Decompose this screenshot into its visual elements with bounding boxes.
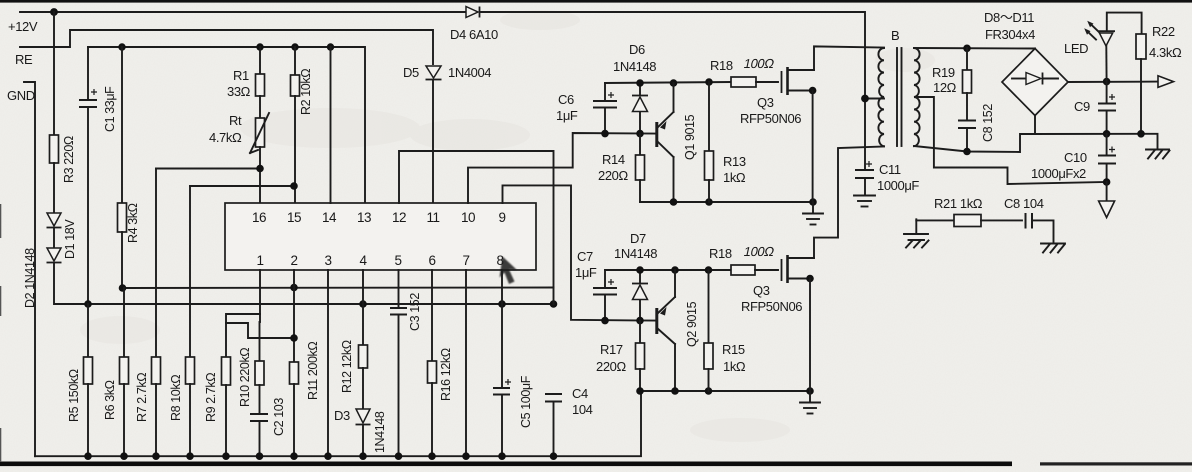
svg-text:C9: C9: [1074, 99, 1090, 114]
wire R4 bottom: [121, 232, 123, 288]
transistor Q1: [657, 83, 697, 202]
wire R6 column: [123, 288, 125, 357]
svg-text:R19: R19: [932, 65, 955, 80]
resistor R1 column: [259, 47, 261, 74]
svg-text:1N4004: 1N4004: [448, 65, 491, 80]
svg-text:12Ω: 12Ω: [933, 80, 957, 95]
svg-text:C1 33μF: C1 33μF: [103, 86, 117, 132]
capacitor C10: [1031, 134, 1116, 186]
svg-text:R10 220kΩ: R10 220kΩ: [238, 348, 252, 407]
resistor R18 lower: [709, 244, 778, 275]
svg-text:2: 2: [290, 253, 297, 268]
wire R5 bottom: [87, 384, 89, 456]
wire bottom rail: [35, 391, 641, 456]
ground under C8 right (hatched): [1041, 244, 1065, 253]
svg-text:4: 4: [359, 253, 367, 268]
svg-text:1μF: 1μF: [575, 265, 597, 280]
svg-text:R4 3kΩ: R4 3kΩ: [126, 203, 140, 243]
svg-text:100Ω: 100Ω: [742, 56, 775, 71]
svg-text:Rt: Rt: [229, 113, 242, 128]
svg-text:C8 152: C8 152: [981, 104, 995, 142]
zener D1: [47, 213, 78, 259]
wire R16 bottom: [431, 383, 433, 456]
wire node line y186 (pin15,R8,R2): [190, 185, 294, 187]
svg-text:6: 6: [428, 253, 435, 268]
svg-text:R21 1kΩ: R21 1kΩ: [934, 196, 983, 211]
wire RE rail: [20, 30, 433, 64]
resistor R14: [598, 134, 645, 202]
ground right (hatched): [1146, 150, 1170, 159]
resistor R17: [596, 321, 645, 391]
wire top node y83: [605, 82, 731, 83]
resistor R1: [256, 74, 265, 96]
LED and bracket: [1064, 13, 1142, 82]
resistor R13: [705, 82, 746, 202]
node dots lower base line: [601, 317, 609, 325]
diode D6: [613, 42, 656, 134]
cursor artifact: [500, 257, 518, 285]
node dots on y304: [84, 300, 92, 308]
svg-text:R6 3kΩ: R6 3kΩ: [103, 380, 117, 420]
svg-text:R22: R22: [1152, 24, 1175, 39]
node Vref dots: [118, 43, 125, 50]
svg-text:5: 5: [394, 253, 401, 268]
svg-text:R7 2.7kΩ: R7 2.7kΩ: [135, 373, 149, 422]
svg-text:11: 11: [426, 210, 439, 225]
wire R9 bottom: [225, 385, 227, 456]
wire R3 to D1: [53, 163, 55, 213]
svg-text:D3: D3: [334, 408, 350, 423]
node dots lower top line: [636, 266, 644, 274]
wire R4 column: [121, 47, 123, 203]
wire R2 to node y186: [294, 96, 296, 203]
capacitor C5: [493, 375, 533, 456]
wire R8 bottom: [189, 384, 191, 456]
diode D4: [450, 7, 498, 43]
node junction +12V column: [50, 8, 58, 16]
diode D2: [23, 248, 62, 308]
svg-text:R2 10kΩ: R2 10kΩ: [299, 69, 313, 115]
svg-text:12: 12: [392, 210, 406, 225]
thermistor Rt: [209, 113, 269, 153]
top scan border: [0, 0, 1192, 3]
IC U1 box: [225, 203, 536, 270]
mosfet Q3 lower: [741, 147, 884, 392]
node dots base line: [601, 130, 609, 138]
svg-text:1μF: 1μF: [556, 108, 578, 123]
wire output plus row: [1068, 81, 1158, 83]
svg-text:100Ω: 100Ω: [742, 244, 775, 259]
svg-text:R9 2.7kΩ: R9 2.7kΩ: [204, 373, 218, 422]
transformer secondary winding: [914, 48, 920, 146]
resistor R8: [186, 357, 195, 384]
diode D3: [334, 408, 387, 453]
wire R3/D1/D2 column top: [53, 12, 55, 135]
wire primary center tap: [865, 98, 884, 100]
svg-text:104: 104: [572, 402, 593, 417]
wire R1 to Rt: [259, 96, 261, 118]
wire R8 column: [189, 186, 191, 357]
wire R7 bottom: [155, 384, 157, 456]
svg-text:D1 18V: D1 18V: [63, 219, 77, 259]
svg-text:C6: C6: [558, 92, 574, 107]
capacitor C7: [575, 249, 617, 321]
wire mid rail y134: [1035, 134, 1158, 149]
svg-text:FR304x4: FR304x4: [985, 27, 1035, 42]
svg-text:4.7kΩ: 4.7kΩ: [209, 130, 242, 145]
svg-text:GND: GND: [7, 88, 35, 103]
capacitor C6: [556, 83, 617, 134]
svg-text:D6: D6: [629, 42, 645, 57]
svg-text:R14: R14: [602, 152, 625, 167]
wire node line y288 to pin2: [122, 287, 554, 290]
svg-text:+12V: +12V: [8, 19, 38, 34]
svg-text:220Ω: 220Ω: [596, 359, 626, 374]
svg-text:R11 200kΩ: R11 200kΩ: [306, 342, 320, 400]
pin labels bottom row: [256, 253, 503, 268]
svg-text:Q1 9015: Q1 9015: [683, 114, 697, 160]
svg-text:1N4148: 1N4148: [614, 246, 657, 261]
transistor Q2: [657, 270, 699, 391]
wire pin4 to R12: [362, 270, 364, 345]
resistor R19: [932, 45, 972, 120]
resistor R15: [704, 270, 746, 391]
svg-text:R17: R17: [600, 342, 623, 357]
svg-text:R16 12kΩ: R16 12kΩ: [439, 348, 453, 401]
capacitor C4: [545, 386, 593, 456]
output arrow right: [1158, 76, 1174, 88]
resistor R22: [1136, 24, 1182, 134]
svg-text:R15: R15: [722, 342, 745, 357]
svg-text:B: B: [891, 28, 899, 43]
resistor R4: [118, 203, 127, 232]
resistor R5: [84, 357, 93, 384]
svg-text:R18: R18: [710, 58, 733, 73]
capacitor C3: [390, 293, 422, 457]
wire D1 to D2: [53, 228, 55, 248]
wire R12 to D3: [362, 368, 364, 409]
wire top node y270: [605, 269, 731, 271]
capacitor C9: [1074, 82, 1116, 134]
svg-text:1000μF: 1000μF: [877, 178, 919, 193]
wire secondary center tap to minus rail: [915, 97, 1107, 184]
capacitor C2: [250, 385, 286, 456]
wire D3 bottom: [362, 425, 364, 456]
svg-text:D8〜D11: D8〜D11: [984, 10, 1034, 25]
wire bottom node y202: [640, 201, 813, 203]
svg-text:Q3: Q3: [753, 283, 770, 298]
wire bottom node y391: [640, 390, 810, 392]
svg-text:14: 14: [322, 210, 337, 225]
svg-text:R12 12kΩ: R12 12kΩ: [340, 340, 354, 393]
diode D5: [403, 65, 491, 80]
node dots top line: [636, 79, 644, 87]
svg-text:R3 220Ω: R3 220Ω: [62, 136, 76, 183]
transformer core: [896, 48, 898, 146]
capacitor C11: [855, 161, 919, 195]
svg-text:C11: C11: [879, 162, 901, 177]
svg-text:C10: C10: [1064, 150, 1087, 165]
svg-text:R5 150kΩ: R5 150kΩ: [67, 369, 81, 422]
svg-text:R18: R18: [709, 246, 732, 261]
resistor R11: [290, 362, 299, 384]
wire R6 bottom: [123, 384, 125, 456]
svg-text:7: 7: [462, 253, 469, 268]
diode D7: [614, 231, 657, 321]
svg-text:16: 16: [252, 210, 266, 225]
svg-text:D5: D5: [403, 65, 419, 80]
svg-text:Q2 9015: Q2 9015: [685, 301, 699, 347]
svg-text:4.3kΩ: 4.3kΩ: [1149, 45, 1182, 60]
pin labels top row: [252, 210, 506, 225]
snubber R21 + C8(104): [916, 196, 1053, 243]
svg-text:C8 104: C8 104: [1004, 196, 1044, 211]
svg-text:C5 100μF: C5 100μF: [519, 375, 533, 428]
ground under R21 left (hatched): [904, 234, 929, 248]
wire pin12 to node y304: [399, 151, 554, 304]
ground under Q1 stage: [803, 202, 823, 225]
svg-text:1kΩ: 1kΩ: [723, 170, 746, 185]
resistor R18 upper: [710, 56, 778, 87]
wire bridge bottom stub: [1034, 116, 1036, 135]
resistor R3: [50, 135, 59, 163]
svg-text:C2 103: C2 103: [272, 398, 286, 436]
wire +12V rail: [20, 11, 465, 13]
node rail dots: [84, 452, 557, 460]
wire +12V rail right part: [481, 12, 865, 169]
resistor R12: [359, 345, 368, 368]
svg-text:1000μFx2: 1000μFx2: [1031, 166, 1086, 181]
svg-text:15: 15: [287, 210, 301, 225]
bridge rectifier D8-D11: [984, 10, 1068, 116]
svg-text:D2 1N4148: D2 1N4148: [23, 248, 37, 308]
svg-text:C3 152: C3 152: [408, 293, 422, 331]
wire pin9 staircase to Q2 base: [503, 185, 658, 320]
wire pin1 jog to R9: [259, 270, 261, 322]
scan background mottle: [80, 10, 935, 442]
wire node line y168 (pin16,R7,Rt): [156, 169, 260, 204]
wire R5 column: [87, 304, 89, 357]
svg-text:1kΩ: 1kΩ: [723, 359, 746, 374]
svg-text:C4: C4: [572, 386, 588, 401]
wire Vref rail y47: [88, 47, 365, 203]
transformer primary winding: [878, 48, 884, 146]
svg-text:1N4148: 1N4148: [613, 59, 656, 74]
resistor R9: [222, 357, 231, 385]
wire pin2 column: [293, 270, 295, 362]
resistor R2: [291, 75, 300, 96]
wire pin3: [327, 270, 329, 456]
svg-text:Q3: Q3: [757, 95, 774, 110]
wire pin1 to R10: [259, 322, 261, 361]
wire pin5 to C3: [398, 270, 400, 307]
wire Rt to node: [259, 147, 261, 169]
svg-text:1N4148: 1N4148: [373, 411, 387, 453]
svg-text:RE: RE: [15, 52, 33, 67]
svg-text:RFP50N06: RFP50N06: [740, 111, 801, 126]
wire GND lead: [24, 82, 35, 456]
svg-text:R13: R13: [723, 154, 746, 169]
svg-text:RFP50N06: RFP50N06: [741, 299, 802, 314]
wire pin6 to R16: [431, 270, 433, 361]
ground under C11: [854, 196, 875, 207]
mosfet Q3 upper: [740, 46, 884, 202]
wire node line y304: [54, 263, 554, 304]
svg-text:3: 3: [324, 253, 331, 268]
left edge scan ticks: [0, 204, 1, 238]
capacitor C8 (152): [958, 104, 995, 156]
svg-text:33Ω: 33Ω: [227, 84, 251, 99]
resistor R16: [428, 361, 437, 383]
wire D5 to pin11: [432, 80, 434, 203]
bottom scan border band: [0, 462, 1012, 467]
svg-text:220Ω: 220Ω: [598, 168, 628, 183]
svg-text:R1: R1: [233, 68, 249, 83]
svg-text:9: 9: [498, 210, 505, 225]
wire pin8 to C5: [501, 270, 503, 387]
svg-text:13: 13: [357, 210, 371, 225]
ground under Q2 stage: [800, 391, 820, 414]
capacitor C1: [79, 47, 117, 304]
output arrow down: [1099, 182, 1115, 218]
wire R7 column: [155, 169, 157, 358]
wire pin10 staircase to Q1 base: [468, 133, 657, 203]
svg-text:D7: D7: [630, 231, 646, 246]
wire secondary top lead: [914, 47, 1035, 50]
svg-text:R8 10kΩ: R8 10kΩ: [169, 375, 183, 421]
resistor R6: [120, 357, 129, 384]
svg-text:1: 1: [256, 253, 263, 268]
resistor R2 column: [294, 47, 296, 75]
wire secondary bottom lead: [914, 134, 1035, 152]
resistor R7: [152, 357, 161, 384]
wire R11 bottom: [293, 384, 295, 456]
wire pin7: [465, 270, 467, 456]
svg-text:10: 10: [461, 210, 475, 225]
wire pin14: [330, 47, 332, 203]
svg-text:LED: LED: [1064, 41, 1088, 56]
svg-text:C7: C7: [577, 249, 593, 264]
wire node jog R11 top: [226, 323, 294, 338]
resistor R10: [255, 361, 264, 385]
svg-text:D4 6A10: D4 6A10: [450, 27, 498, 42]
